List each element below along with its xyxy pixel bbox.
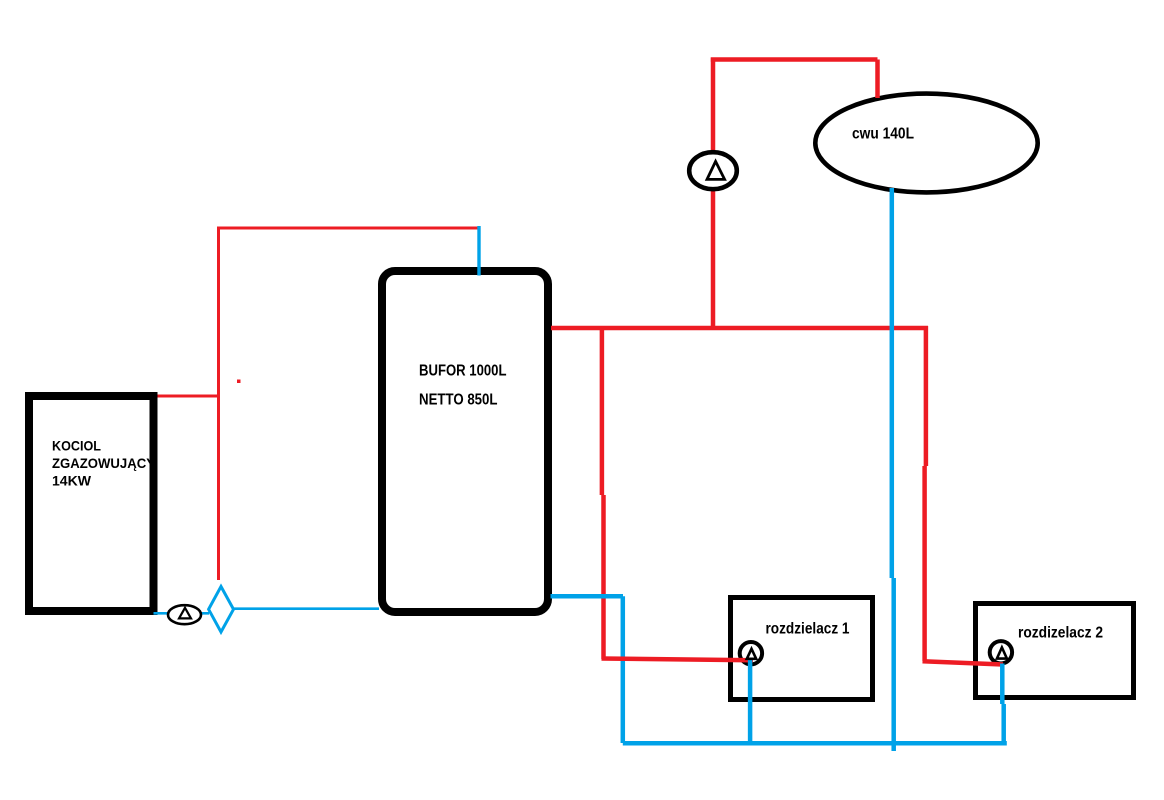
wire: blue from rozdzielacz 2 pump down (1002, 664, 1003, 744)
wire: blue from rozdzielacz 1 pump down (748, 660, 753, 744)
svg-text:rozdizelacz 2: rozdizelacz 2 (1018, 625, 1103, 642)
wire: red main from bufor right (551, 326, 928, 331)
wire: red cwu pump riser top (711, 58, 716, 152)
wire: blue cwu return vertical (892, 188, 894, 751)
node: red dot (237, 380, 241, 384)
boiler KOCIOL ZGAZOWUJACY 14KW box (29, 396, 156, 611)
rozdzielacz 1 box (731, 598, 873, 700)
wire: blue stub into bufor top (477, 226, 480, 276)
pump P3 impeller triangle (747, 649, 756, 659)
wire: blue return drop (621, 596, 626, 743)
svg-text:cwu 140L: cwu 140L (852, 126, 914, 143)
wire: red cwu pump to main (711, 190, 716, 330)
wire: red supply boiler to riser (158, 395, 219, 398)
wire: blue bottom return horizontal (623, 741, 1007, 746)
cwu 140L tank ellipse (815, 94, 1037, 193)
wire: red cwu top horizontal (711, 57, 878, 62)
bufor tank BUFOR 1000L NETTO 850L (382, 271, 548, 612)
wire: red drop into cwu ellipse (875, 60, 880, 99)
svg-text:14KW: 14KW (52, 472, 92, 488)
svg-text:NETTO 850L: NETTO 850L (419, 392, 498, 409)
wire: red branch to rozdzielacz 1 pump (602, 659, 754, 661)
wire: red left branch vertical (602, 328, 604, 659)
pump P1 at boiler (168, 605, 201, 624)
svg-text:KOCIOL: KOCIOL (52, 437, 101, 453)
svg-text:rozdzielacz 1: rozdzielacz 1 (766, 621, 850, 638)
wire: blue bufor bottom out (551, 594, 624, 599)
pump P2 cwu circuit (689, 152, 737, 189)
pump P4 impeller triangle (997, 647, 1007, 658)
rozdzielacz 2 box (976, 604, 1134, 698)
svg-text:ZGAZOWUJĄCY: ZGAZOWUJĄCY (52, 455, 156, 471)
pump P3 rozdzielacz 1 circle (740, 642, 762, 664)
pump P4 rozdzielacz 2 circle (990, 641, 1012, 663)
valve: blue diamond (209, 587, 234, 633)
wire: red branch to rozdzielacz 2 pump (923, 661, 1004, 664)
wire: blue diamond to bufor segment (233, 607, 379, 610)
wire: red right vertical down (925, 326, 926, 661)
wire: blue boiler bottom left segment (154, 612, 210, 615)
wire: red riser vertical (217, 227, 220, 581)
svg-text:BUFOR 1000L: BUFOR 1000L (419, 363, 507, 380)
wire: red top horizontal to bufor (217, 227, 479, 230)
